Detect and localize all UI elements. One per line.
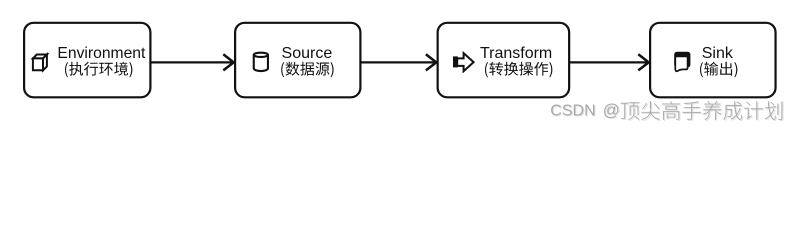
icon cube (Environment) [33,53,48,70]
svg-text:CSDN: CSDN [550,103,595,120]
svg-text:Source: Source [282,45,333,62]
icon arrow-right (Transform) [453,53,474,71]
svg-text:@: @ [603,101,620,120]
svg-text:Environment: Environment [57,45,146,62]
wire arrow 3 [569,61,648,63]
svg-text:Transform: Transform [480,45,552,62]
node Environment box [24,23,150,98]
node Source box [235,23,360,98]
svg-text:Sink: Sink [702,45,734,62]
wire arrow 2 [360,61,436,63]
label (执行环境) [65,62,132,78]
wire arrow 1 [150,61,233,63]
node Transform box [438,23,570,98]
node Sink box [650,23,775,98]
icon page (Sink) [674,52,690,72]
label (数据源) [281,62,333,78]
label (输出) [700,62,737,78]
icon database (Source) [254,53,268,71]
label (转换操作) [485,62,552,78]
